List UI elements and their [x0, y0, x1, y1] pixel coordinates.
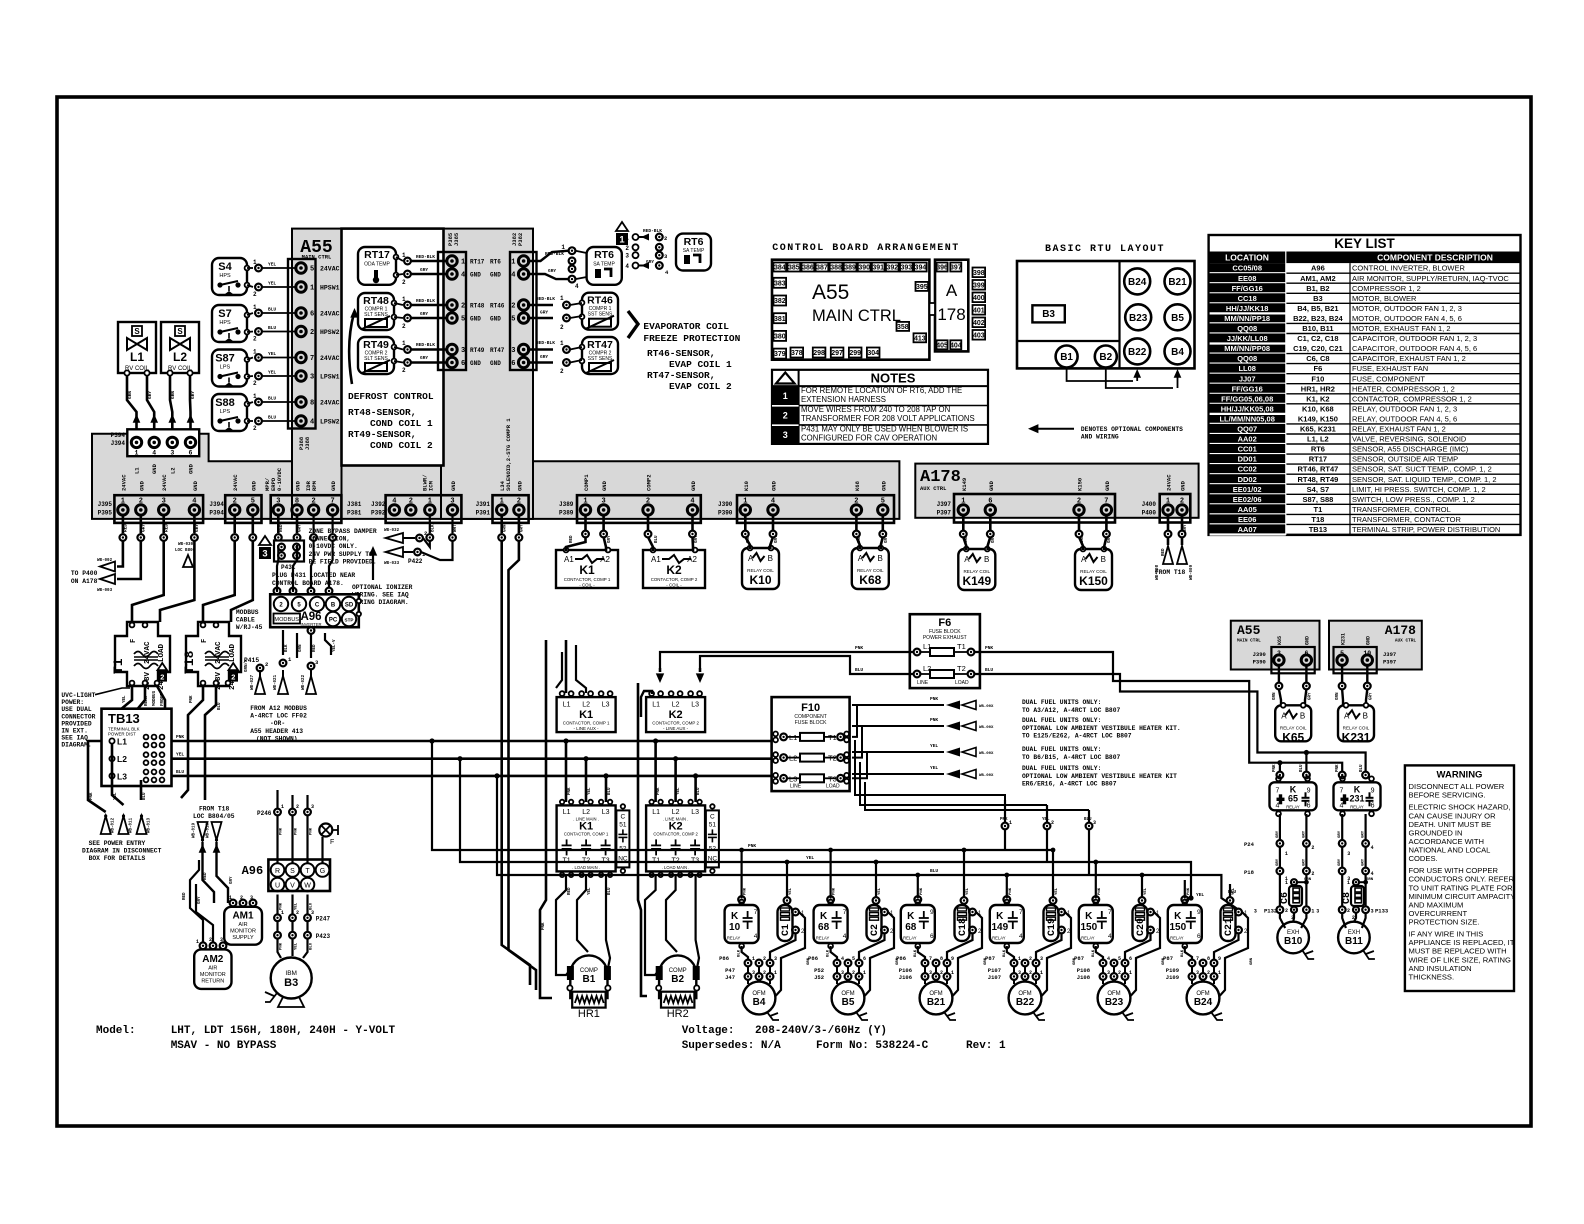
svg-text:J390: J390 — [1253, 651, 1266, 658]
svg-text:WB-018: WB-018 — [207, 822, 211, 838]
svg-text:LOAD: LOAD — [826, 784, 840, 790]
svg-text:MODBUS: MODBUS — [236, 609, 259, 616]
svg-text:BLU: BLU — [1360, 764, 1364, 772]
svg-text:P392: P392 — [371, 510, 386, 517]
svg-text:3: 3 — [511, 347, 515, 355]
svg-text:P133: P133 — [1375, 908, 1389, 915]
svg-text:RPM: RPM — [311, 480, 318, 491]
svg-text:B: B — [331, 603, 336, 609]
connector J388/P388 on A55 — [288, 259, 316, 429]
svg-text:WB-013: WB-013 — [148, 817, 152, 833]
transformer T1 — [115, 622, 170, 686]
svg-text:- COIL -: - COIL - — [666, 583, 682, 588]
svg-text:RT49: RT49 — [470, 347, 485, 354]
svg-text:1: 1 — [402, 340, 406, 347]
svg-text:2: 2 — [1077, 497, 1081, 505]
svg-text:299: 299 — [849, 350, 861, 357]
svg-text:GRY: GRY — [775, 535, 779, 543]
svg-text:GND: GND — [470, 360, 481, 367]
svg-text:1: 1 — [135, 450, 139, 457]
svg-text:RT17: RT17 — [470, 259, 485, 266]
relay contacts K231 — [1334, 782, 1381, 810]
svg-text:WB-00X: WB-00X — [979, 752, 994, 756]
crankcase heater HR2 — [661, 992, 694, 1008]
svg-text:YEL: YEL — [930, 743, 938, 749]
svg-text:1: 1 — [583, 497, 587, 505]
svg-text:K65, K231: K65, K231 — [1300, 425, 1336, 434]
svg-text:BLK: BLK — [914, 949, 918, 957]
svg-text:6: 6 — [988, 497, 992, 505]
K1 main top feeds — [565, 741, 568, 802]
svg-text:COMP1: COMP1 — [583, 474, 590, 491]
svg-text:K10: K10 — [749, 573, 771, 587]
A178 board outline — [935, 260, 968, 352]
WB-032 WB-033 flags and P422 — [386, 533, 403, 543]
board link nub — [929, 303, 935, 315]
svg-text:A: A — [964, 555, 970, 564]
svg-text:J395: J395 — [98, 501, 113, 508]
rtu motor B21 — [1165, 268, 1191, 294]
svg-text:B11: B11 — [1345, 936, 1363, 947]
svg-text:RT48: RT48 — [470, 303, 485, 310]
svg-text:YEL: YEL — [966, 887, 970, 895]
svg-text:24VAC: 24VAC — [320, 311, 340, 318]
svg-text:Supersedes: N/A: Supersedes: N/A — [682, 1040, 781, 1052]
svg-text:B: B — [984, 555, 989, 564]
svg-text:L3: L3 — [691, 702, 699, 709]
svg-text:WB-00X: WB-00X — [979, 774, 994, 778]
svg-text:1: 1 — [1166, 497, 1170, 505]
svg-text:399: 399 — [973, 282, 985, 289]
svg-text:BLU: BLU — [268, 415, 276, 421]
outdoor fan motor B23 — [1098, 982, 1131, 1015]
svg-text:3: 3 — [752, 970, 755, 976]
wires S4 to A55 — [247, 267, 253, 269]
svg-text:J52: J52 — [814, 974, 824, 981]
svg-text:L1, L2: L1, L2 — [1307, 435, 1329, 444]
svg-text:K: K — [820, 911, 828, 922]
svg-text:7: 7 — [1019, 909, 1023, 916]
svg-text:BE FIELD PROVIDED.: BE FIELD PROVIDED. — [309, 558, 377, 565]
connector J390/P390 — [737, 495, 894, 523]
svg-text:3: 3 — [601, 497, 605, 505]
svg-text:K: K — [731, 911, 739, 922]
denotes optional text — [1038, 428, 1074, 430]
svg-text:L1: L1 — [652, 809, 660, 816]
svg-text:L3: L3 — [691, 809, 699, 816]
svg-text:7: 7 — [1340, 787, 1344, 794]
remote RT6 sensor — [676, 234, 711, 271]
svg-text:B1, B2: B1, B2 — [1306, 284, 1329, 293]
svg-text:B1: B1 — [583, 974, 596, 985]
outdoor fan motor B22 — [1009, 982, 1042, 1015]
svg-text:SWITCH, LOW PRESS., COMP. 1, 2: SWITCH, LOW PRESS., COMP. 1, 2 — [1352, 495, 1475, 504]
svg-text:CONTACTOR, COMP 2: CONTACTOR, COMP 2 — [651, 577, 698, 582]
svg-text:1: 1 — [783, 391, 788, 401]
svg-text:A55: A55 — [1237, 623, 1261, 638]
svg-text:RT49-SENSOR,: RT49-SENSOR, — [348, 429, 416, 440]
svg-text:1: 1 — [428, 497, 432, 505]
outdoor fan motor B5 — [832, 982, 865, 1015]
svg-text:L1: L1 — [563, 809, 571, 816]
svg-text:3: 3 — [625, 253, 629, 260]
svg-text:F: F — [201, 639, 209, 643]
connector J397/P397 — [954, 494, 1115, 523]
svg-text:CONFIGURED FOR CAV OPERATION: CONFIGURED FOR CAV OPERATION — [801, 434, 937, 443]
svg-text:1: 1 — [402, 252, 406, 259]
svg-text:GRY: GRY — [1276, 858, 1280, 866]
svg-text:GRN: GRN — [858, 535, 862, 543]
border frame — [57, 97, 1531, 1126]
svg-text:Form No: 538224-C: Form No: 538224-C — [816, 1040, 929, 1052]
svg-text:1: 1 — [196, 939, 199, 945]
svg-text:PNK: PNK — [90, 792, 94, 800]
413 — [914, 333, 927, 342]
svg-text:IBM: IBM — [285, 970, 297, 977]
svg-text:L3: L3 — [602, 809, 610, 816]
svg-text:C2: C2 — [870, 924, 881, 936]
svg-text:3: 3 — [250, 895, 253, 901]
rtu motor B24 — [1124, 268, 1150, 294]
svg-text:K10, K68: K10, K68 — [1302, 404, 1334, 413]
svg-text:1: 1 — [1218, 970, 1221, 976]
svg-text:Voltage:: Voltage: — [682, 1025, 735, 1037]
svg-text:2: 2 — [296, 804, 299, 810]
contactor K1 line aux — [557, 697, 616, 732]
svg-text:A1: A1 — [651, 555, 661, 564]
svg-text:4: 4 — [625, 263, 629, 270]
svg-text:2: 2 — [409, 497, 413, 505]
remote RT6 connector columns — [633, 234, 639, 240]
svg-text:COND COIL 2: COND COIL 2 — [370, 440, 433, 451]
svg-text:BLU: BLU — [218, 702, 222, 710]
arrows into K2 aux — [656, 673, 664, 683]
svg-text:SUPPLY: SUPPLY — [232, 935, 254, 941]
svg-text:B24: B24 — [1194, 997, 1213, 1008]
svg-text:B10, B11: B10, B11 — [1302, 324, 1333, 333]
svg-text:6: 6 — [1197, 933, 1201, 940]
svg-text:SD: SD — [345, 603, 354, 609]
svg-text:394: 394 — [915, 265, 927, 272]
svg-text:DUAL FUEL UNITS ONLY:: DUAL FUEL UNITS ONLY: — [1022, 717, 1101, 724]
svg-text:A55 HEADER 413: A55 HEADER 413 — [250, 728, 303, 735]
RT6 connector column — [569, 247, 576, 254]
connector grid bank 6 — [1189, 960, 1196, 967]
svg-text:YEL: YEL — [588, 787, 592, 795]
svg-text:PNK: PNK — [310, 827, 314, 835]
svg-text:J107: J107 — [988, 974, 1001, 981]
svg-text:383: 383 — [774, 280, 786, 287]
svg-text:396: 396 — [936, 265, 948, 272]
svg-text:HH/JJ/KK18: HH/JJ/KK18 — [1226, 304, 1269, 313]
svg-text:B21: B21 — [927, 997, 946, 1008]
rtu motor B2 — [1095, 346, 1117, 368]
svg-text:K68: K68 — [854, 480, 861, 491]
svg-text:WB-027: WB-027 — [251, 674, 255, 690]
svg-text:SA TEMP: SA TEMP — [593, 262, 615, 268]
svg-text:GRY: GRY — [1362, 830, 1366, 838]
svg-text:FUSE, EXHAUST FAN: FUSE, EXHAUST FAN — [1352, 364, 1428, 373]
svg-text:JJ07: JJ07 — [1239, 374, 1256, 383]
svg-text:P395: P395 — [98, 510, 113, 517]
svg-text:GRY: GRY — [230, 876, 234, 884]
svg-text:4: 4 — [1108, 933, 1112, 940]
svg-text:7: 7 — [330, 497, 334, 505]
svg-text:MONITOR: MONITOR — [200, 972, 226, 978]
svg-text:395: 395 — [916, 284, 928, 291]
svg-text:GND: GND — [151, 463, 158, 474]
svg-text:7: 7 — [843, 909, 847, 916]
svg-text:P381: P381 — [347, 510, 362, 517]
connector J394/P394 bus — [225, 495, 261, 523]
svg-text:S: S — [177, 327, 183, 336]
svg-text:S87, S88: S87, S88 — [1302, 495, 1333, 504]
svg-text:WB-00X: WB-00X — [979, 726, 994, 730]
wires S7 to A55 — [247, 313, 253, 315]
svg-text:4: 4 — [1371, 871, 1374, 877]
svg-text:YEL: YEL — [789, 887, 793, 895]
395 — [916, 282, 929, 291]
svg-text:GRN: GRN — [1250, 957, 1254, 965]
svg-text:51: 51 — [619, 821, 627, 828]
svg-text:LL08: LL08 — [1238, 364, 1256, 373]
svg-text:B21: B21 — [1168, 277, 1187, 288]
svg-text:YEL: YEL — [114, 792, 118, 800]
svg-text:297: 297 — [831, 350, 843, 357]
svg-text:C1, C2, C18: C1, C2, C18 — [1297, 334, 1338, 343]
svg-text:2: 2 — [240, 895, 243, 901]
svg-text:3: 3 — [841, 970, 844, 976]
leads RT49 — [394, 347, 403, 350]
svg-text:386: 386 — [802, 265, 814, 272]
svg-text:6: 6 — [511, 360, 515, 368]
svg-text:3: 3 — [1093, 820, 1096, 826]
svg-text:WB-00X: WB-00X — [979, 705, 994, 709]
svg-text:2: 2 — [852, 970, 855, 976]
svg-text:LOAD: LOAD — [229, 643, 237, 662]
svg-text:T1: T1 — [1314, 505, 1323, 514]
svg-text:PNK: PNK — [1009, 887, 1013, 895]
svg-text:BLU: BLU — [268, 396, 276, 402]
switch S7 — [212, 305, 247, 342]
svg-text:SA TEMP: SA TEMP — [683, 248, 705, 254]
chain for B10 — [1279, 814, 1281, 840]
svg-text:9: 9 — [1307, 787, 1311, 794]
svg-text:2: 2 — [311, 497, 315, 505]
svg-text:B4, B5, B21: B4, B5, B21 — [1297, 304, 1338, 313]
svg-text:7: 7 — [1108, 909, 1112, 916]
svg-text:5: 5 — [310, 266, 314, 274]
svg-text:V: V — [290, 882, 295, 889]
svg-text:FF/GG05,06,08: FF/GG05,06,08 — [1221, 394, 1273, 403]
air monitor AM2 — [194, 949, 231, 989]
svg-text:10: 10 — [729, 922, 741, 933]
svg-text:RT6: RT6 — [594, 249, 614, 261]
svg-text:WB-019: WB-019 — [193, 822, 197, 838]
svg-text:BLU: BLU — [855, 667, 863, 673]
svg-text:AND WIRING: AND WIRING — [1081, 434, 1119, 441]
svg-text:3: 3 — [1254, 909, 1257, 915]
svg-text:CONTROL INVERTER, BLOWER: CONTROL INVERTER, BLOWER — [1352, 264, 1466, 273]
svg-text:CONTACTOR, COMP 1: CONTACTOR, COMP 1 — [563, 721, 610, 726]
svg-text:K2: K2 — [669, 709, 683, 721]
svg-text:J397: J397 — [937, 501, 952, 508]
svg-text:POWER EXHAUST: POWER EXHAUST — [923, 635, 967, 641]
B3 box — [1032, 305, 1064, 322]
svg-text:GND: GND — [450, 480, 457, 491]
rtu motor B5 — [1165, 304, 1191, 330]
svg-text:24VAC: 24VAC — [120, 474, 127, 491]
sensor RT49 — [358, 337, 394, 374]
svg-text:F6: F6 — [938, 617, 951, 629]
svg-text:TRANSFORMER, CONTACTOR: TRANSFORMER, CONTACTOR — [1352, 515, 1461, 524]
svg-text:AM1: AM1 — [232, 911, 254, 922]
svg-text:GND: GND — [516, 480, 523, 491]
K1 aux hook wire — [641, 691, 652, 717]
svg-text:150: 150 — [1169, 922, 1186, 933]
svg-text:C19, C20, C21: C19, C20, C21 — [1293, 344, 1343, 353]
svg-text:3: 3 — [162, 497, 166, 505]
svg-text:2: 2 — [139, 497, 143, 505]
svg-text:1: 1 — [743, 497, 747, 505]
svg-text:B: B — [1101, 555, 1106, 564]
crankcase heater HR1 — [572, 992, 605, 1008]
switch S88 — [212, 394, 247, 431]
TB13 L1 L2 L3 feed lines — [172, 740, 773, 743]
svg-text:4: 4 — [310, 419, 314, 427]
svg-text:K150: K150 — [1077, 478, 1084, 491]
svg-text:J400: J400 — [1142, 501, 1157, 508]
svg-text:ODA TEMP: ODA TEMP — [364, 262, 390, 268]
note 1 badge — [616, 222, 628, 231]
svg-text:6: 6 — [863, 956, 866, 962]
svg-text:4: 4 — [511, 272, 515, 280]
svg-text:WB-011: WB-011 — [130, 817, 134, 833]
connector grid bank 5 — [1100, 960, 1107, 967]
P247/P423 connector rows — [274, 914, 281, 921]
svg-text:401: 401 — [973, 307, 985, 314]
svg-text:EE06: EE06 — [1238, 515, 1256, 524]
svg-text:CC02: CC02 — [1238, 465, 1257, 474]
svg-text:GND: GND — [690, 480, 697, 491]
svg-text:YEL-V: YEL-V — [333, 639, 337, 652]
svg-text:OPTIONAL LOW AMBIENT VESTIBULE: OPTIONAL LOW AMBIENT VESTIBULE HEATER KI… — [1022, 773, 1177, 780]
svg-text:WB-022: WB-022 — [302, 674, 306, 690]
svg-text:24VAC: 24VAC — [320, 266, 340, 273]
svg-text:GRY: GRY — [190, 391, 196, 399]
svg-text:YEL: YEL — [268, 370, 276, 376]
svg-text:358: 358 — [897, 324, 909, 331]
svg-text:6: 6 — [930, 933, 934, 940]
svg-text:3: 3 — [310, 374, 314, 382]
svg-text:K149, K150: K149, K150 — [1298, 415, 1338, 424]
svg-text:9: 9 — [1218, 956, 1221, 962]
svg-text:L2: L2 — [582, 702, 590, 709]
svg-text:GND: GND — [490, 360, 501, 367]
svg-text:T1: T1 — [828, 733, 837, 742]
svg-text:CAPACITOR, OUTDOOR FAN 1, 2, 3: CAPACITOR, OUTDOOR FAN 1, 2, 3 — [1352, 334, 1477, 343]
P431 connector — [259, 536, 271, 545]
svg-text:PNK: PNK — [280, 827, 284, 835]
svg-text:2: 2 — [1118, 970, 1121, 976]
svg-text:65: 65 — [1288, 793, 1298, 803]
svg-text:LOCATION: LOCATION — [1225, 253, 1269, 263]
svg-text:LPS: LPS — [220, 409, 231, 415]
svg-text:GRY: GRY — [992, 535, 996, 543]
svg-text:RED: RED — [570, 535, 574, 543]
notes table — [772, 370, 988, 444]
svg-text:QQ08: QQ08 — [1237, 354, 1257, 363]
svg-text:A: A — [946, 281, 958, 300]
svg-text:GRN: GRN — [965, 535, 969, 543]
svg-text:QQ08: QQ08 — [1237, 324, 1257, 333]
svg-text:RT48: RT48 — [363, 295, 389, 307]
svg-text:3: 3 — [783, 430, 788, 440]
svg-text:P431 MAY ONLY BE USED WHEN BLO: P431 MAY ONLY BE USED WHEN BLOWER IS — [801, 425, 968, 434]
svg-text:RED-BLK: RED-BLK — [416, 254, 435, 260]
svg-text:ER6/ER16, A-4RCT LOC B807: ER6/ER16, A-4RCT LOC B807 — [1022, 781, 1117, 788]
svg-text:RT48-SENSOR,: RT48-SENSOR, — [348, 407, 416, 418]
svg-text:BLK: BLK — [1003, 949, 1007, 957]
svg-text:GRN: GRN — [503, 524, 507, 532]
svg-text:GND: GND — [330, 480, 337, 491]
svg-text:T1: T1 — [957, 642, 966, 651]
svg-text:T18: T18 — [182, 650, 197, 674]
svg-text:QQ07: QQ07 — [1237, 425, 1257, 434]
svg-text:1: 1 — [511, 259, 515, 267]
svg-text:RELAY: RELAY — [816, 936, 830, 941]
sensor RT17 — [358, 247, 396, 285]
svg-text:B23: B23 — [1129, 313, 1148, 324]
svg-text:FOR REMOTE LOCATION OF RT6, AD: FOR REMOTE LOCATION OF RT6, ADD THE — [801, 386, 962, 395]
svg-text:2: 2 — [253, 336, 257, 343]
svg-text:413: 413 — [914, 335, 926, 342]
svg-text:YEL: YEL — [176, 752, 184, 758]
svg-text:2: 2 — [763, 970, 766, 976]
K1 aux feed wires — [565, 640, 568, 693]
svg-text:MOTOR, BLOWER: MOTOR, BLOWER — [1352, 294, 1417, 303]
svg-text:LOC B804/05: LOC B804/05 — [193, 813, 235, 820]
svg-text:CC05/08: CC05/08 — [1232, 264, 1262, 273]
sensor RT48 — [358, 293, 394, 330]
svg-text:DD01: DD01 — [1238, 455, 1257, 464]
svg-text:B10: B10 — [1284, 936, 1303, 947]
svg-text:F6: F6 — [1314, 364, 1323, 373]
svg-text:L2: L2 — [672, 702, 680, 709]
outdoor fan motor B24 — [1187, 982, 1220, 1015]
svg-text:P47: P47 — [725, 967, 735, 974]
svg-text:3: 3 — [170, 450, 174, 457]
svg-text:1: 1 — [560, 295, 564, 302]
svg-text:MODBUS: MODBUS — [274, 617, 299, 623]
svg-text:J106: J106 — [899, 974, 912, 981]
svg-text:F: F — [130, 639, 138, 643]
svg-text:1: 1 — [253, 304, 257, 311]
svg-text:K149: K149 — [962, 574, 991, 588]
svg-text:BLU: BLU — [608, 887, 612, 895]
svg-text:J108: J108 — [1077, 974, 1091, 981]
svg-text:CONTROL BOARD ARRANGEMENT: CONTROL BOARD ARRANGEMENT — [772, 243, 960, 254]
svg-text:3: 3 — [1347, 851, 1350, 857]
svg-text:A: A — [1081, 555, 1087, 564]
svg-text:1: 1 — [281, 804, 284, 810]
svg-text:GND: GND — [192, 480, 199, 491]
svg-text:2: 2 — [1051, 820, 1054, 826]
svg-text:NOTES: NOTES — [871, 371, 916, 386]
contactor K1 line main — [557, 805, 616, 871]
connector J395/P395 — [114, 495, 203, 523]
svg-text:2: 2 — [402, 323, 406, 330]
